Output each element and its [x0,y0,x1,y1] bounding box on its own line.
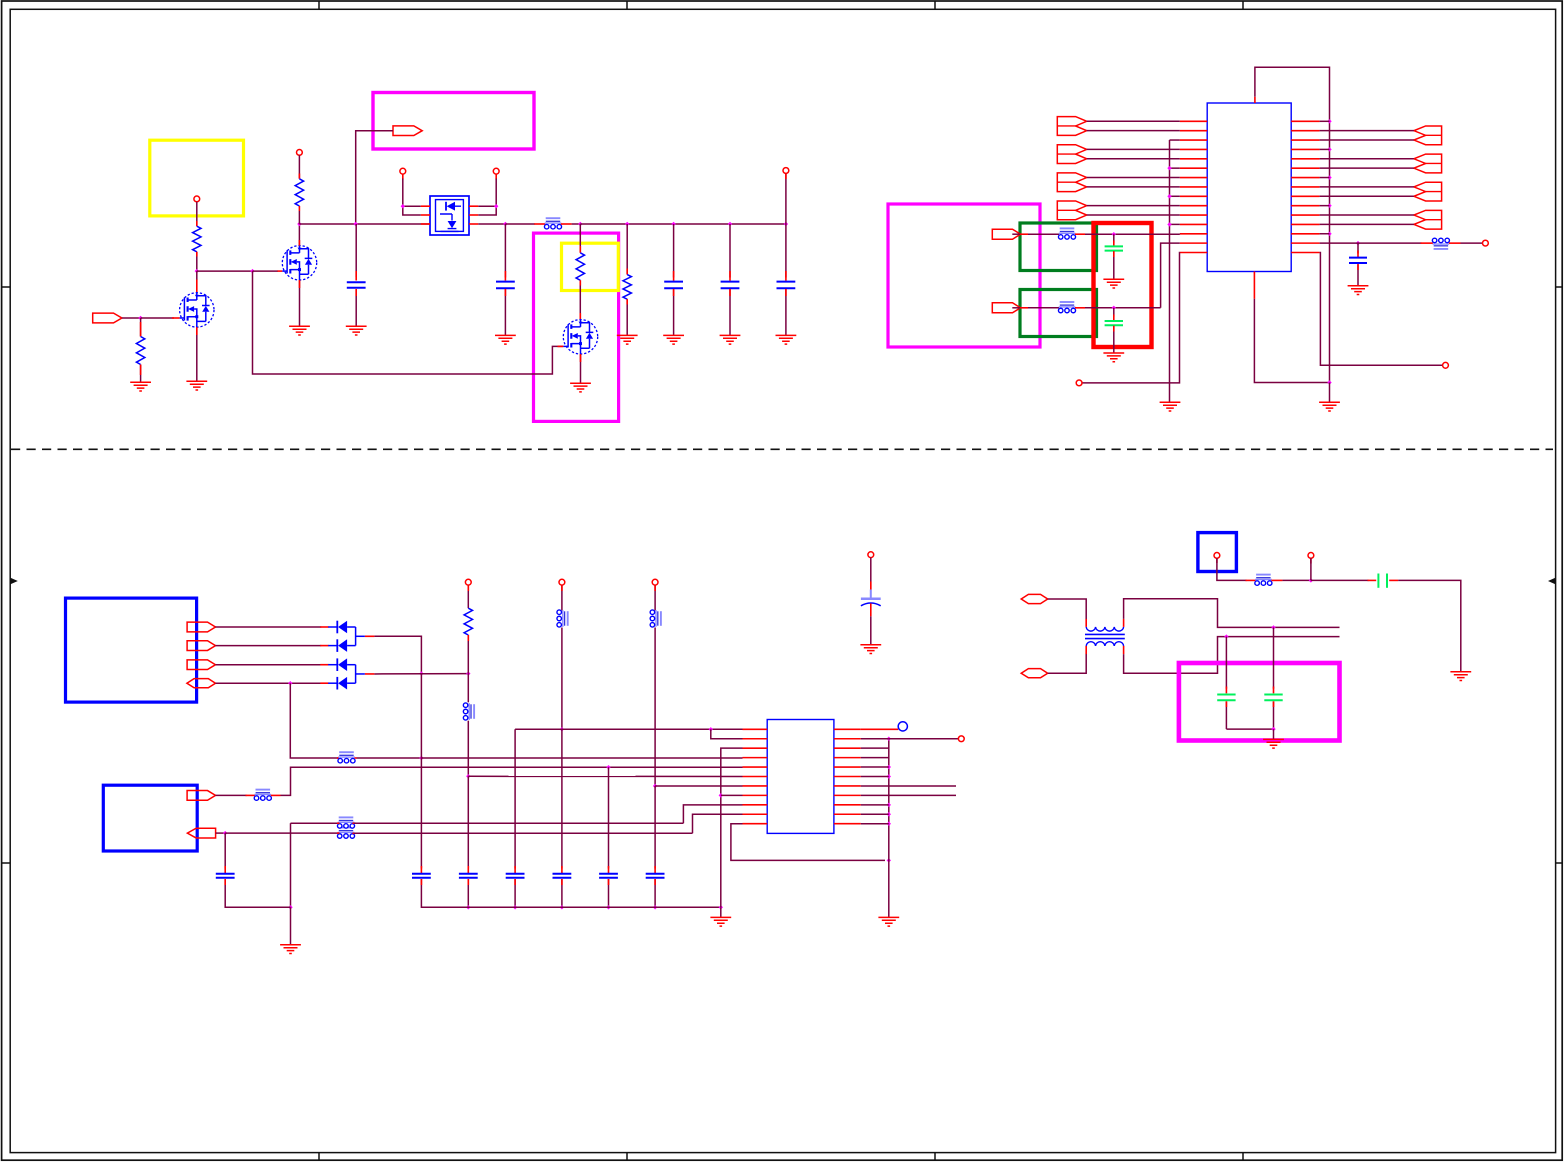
wire N46 down to capacitor C11 [561,729,563,868]
wire PORT-A to FB3 [1012,233,1020,235]
wire U2 bottom pin loop [1254,299,1329,383]
node N28 junction [1327,380,1331,384]
ground G15 (C8) [1103,353,1124,362]
node N3 junction [138,316,142,320]
node N7 junction [494,204,498,208]
wires U2 right power pins 1,4,7,10,13 to rail [1320,120,1330,122]
wire P2 to resistor R3 [298,155,300,178]
wire R5 to ground [626,299,628,335]
capacitor C19 (green, in magenta box M4) [1225,637,1227,689]
port PB2 (bidirectional) [1021,669,1047,678]
ground G3 (Q2 source) [289,326,310,335]
port PORT-B (in magenta box M3) [992,303,1020,313]
port PA2 (blue box B1) [187,641,215,651]
highlight box (green) GB1 [1020,223,1097,271]
wire Q3 source to ground [580,354,582,383]
dual MOSFET U1 package [430,196,469,235]
connector J6 (dual, right rows 5-6) [1414,154,1442,173]
connector J2 (dual, rows 4-5) [1057,145,1086,164]
capacitor C1 [355,224,357,277]
node N61 junction (pin6) [887,774,891,778]
series capacitor C18 (green) [1377,574,1379,588]
ground rail (bottom right half) [421,879,720,907]
capacitor C20 (green, in magenta box M4) [1273,627,1275,688]
ferrite bead FB1 on bus [546,217,561,219]
wire N44 row to U3 pin6 [468,775,742,777]
node N30 junction [1112,232,1116,236]
wire P10 to resistor R6 [467,585,469,608]
IC U3 right pin stubs [834,728,861,730]
wire FB4 to U2 pin14 (via vertical) [1075,307,1085,309]
wire FB3 to U2 pin13 [1075,233,1085,235]
node N22 junction [1167,222,1171,226]
zone tick marks bottom edge [319,1153,1243,1161]
ground G5 (C2) [495,335,516,344]
node N56 junction (rail end) [719,905,723,909]
ground G20 (C18) [1450,672,1471,681]
IC U2 right pin stubs [1291,120,1319,122]
wire P1 to resistor R1 [196,202,198,226]
capacitor C16 (diode net) [420,674,422,869]
right edge arrow marker [1548,578,1556,585]
node N41 junction [466,671,470,675]
node N55 junction (left rail/ground) [288,905,292,909]
wire T1 secondary top to row [1123,619,1125,627]
ground G10 (C5) [776,335,797,344]
wire N41 to ferrite FB6 [467,674,469,703]
ferrite bead FB4 (green box GB2) [1060,301,1075,303]
port PA4 (bidirectional, blue box B1) [187,679,216,688]
wire R1 to node N1 [196,252,198,271]
wire N55 to ground [290,907,292,945]
node N71 junction (cap C20 tap) [1271,625,1275,629]
capacitor C14 [599,873,618,875]
highlight box (blue) B2 [103,785,197,851]
capacitor C11 [553,873,572,875]
node N1 junction [195,269,199,273]
wire P15 to ferrite FB12 [1216,558,1218,563]
node N53 junction (rail) [606,905,610,909]
wire PA4 to diode D4 [216,682,322,684]
wire FB7 to row1 node N46 [561,628,563,730]
ground G6 (Q3 source) [570,383,591,392]
node N20 junction [1167,166,1171,170]
wires J1..J4 to U2 left pins [1087,120,1180,122]
wire C18 to ground [1389,579,1398,581]
ground G1 [130,382,151,391]
node N27 junction [1327,232,1331,236]
node N44 junction (U3 pin6 row) [466,774,470,778]
wires U3 pins5,6 to right vertical [861,766,889,768]
ferrite bead FB5 [339,751,354,753]
wire N1 to Q1 drain [196,271,198,280]
node N70 junction [1309,578,1313,582]
wire IN1 to Q1 gate [122,317,141,319]
capacitor C2 [504,224,506,278]
wire P16 to node N70 [1310,558,1312,563]
wire N56 to ground [720,907,722,917]
bus wire N8 to ferrite FB1 [505,223,534,225]
node N52 junction (cap C14 tap) [606,765,610,769]
diode D3 [328,664,337,666]
ground G12 (right rail) [1319,402,1340,411]
node N2 junction [250,269,254,273]
IC U3 left pin stubs [743,728,768,730]
IC U2 bottom pin stub [1253,272,1255,299]
wire N70 to series capacitor C18 [1311,579,1369,581]
pin P16 [1308,553,1314,559]
wire N50 to U3 pin2 [711,729,743,738]
node N62 junction (pin9) [887,803,891,807]
port IN1 (input port top-left) [93,313,122,323]
node N48 junction (U3 pin7 row) [653,784,657,788]
node N51 junction (rail) [513,905,517,909]
wire P12 to FB8 [654,585,656,610]
highlight box (magenta) M4 [1179,663,1340,741]
diode pair D1/D2 common bracket [355,627,357,646]
ground G14 (C7) [1103,279,1124,288]
wire N3 to Q1 gate stub [141,317,174,319]
node N59 junction (pin2 row) [887,737,891,741]
wire N2 to Q2 gate stub [253,270,279,272]
wire FB9 to U3 pin5 row [271,794,281,796]
wire N3 to resistor R2 [140,318,142,337]
node N12 junction [728,222,732,226]
node N25 junction [1327,175,1331,179]
wire C17 to ground [870,616,872,645]
node N57 junction (U3 pin8 row) [719,793,723,797]
dashed section divider [11,448,1553,450]
node N9 junction [578,222,582,226]
bus wire N9..N13 [580,223,786,225]
port OUT1 (port in magenta box M1) [393,126,422,136]
wire pin2 row to pin P13 [861,738,889,740]
wire U3 row1 from corner to pins 1-2 [515,728,742,730]
wire U3 pin8 long row right [861,794,956,796]
node N11 junction [671,222,675,226]
node N43 junction [419,756,423,760]
wires U2 right pins to J5..J8 [1320,130,1414,132]
wire FB12 to node N70 [1271,579,1282,581]
wire U2 pin15 left to pin P8 [1082,253,1180,383]
wire T1 secondary bottom to row [1123,646,1125,654]
ground G18 (U3 right) [878,917,899,926]
pin P13 (right pin) [958,736,964,742]
pin P5 (bus right pin) [783,168,789,174]
wire N9 to resistor R4 [579,224,581,252]
wire R3 to node N4 [298,206,300,211]
zone tick marks top edge [319,1,1243,9]
node N60 junction (pin5) [887,765,891,769]
node N29 junction [1356,241,1360,245]
pin P10 (top pin over resistor R6) [465,579,471,585]
ferrite bead FB7 (vertical) [567,611,569,626]
capacitor C5 [785,224,787,278]
connector J4 (dual, rows 10-11) [1057,201,1086,220]
wire R2 to ground [140,365,142,383]
pin P4 (dual-FET right pin) [493,168,499,174]
wire N57 to U3 pin8 [721,794,743,796]
IC U2 left pin stubs [1180,120,1207,122]
node N58 junction [887,858,891,862]
capacitor C7 (green, in red box RB1) [1113,234,1115,242]
transformer T1 (common-mode choke) [1086,627,1123,631]
transistor Q1 (NMOS) [180,293,214,327]
pin P11 (top pin over ferrite FB7) [559,579,565,585]
node N46 junction (U3 pin1 row) [560,727,564,731]
power loop wire U2 top pin to right rail [1255,67,1330,382]
wire N44 down to capacitor C10 [467,776,469,868]
pin P2 (pull-up pin) [297,150,303,156]
ferrite bead FB6 (vertical) [473,704,475,719]
node N63 junction (pin10) [887,812,891,816]
highlight box (blue) B1 [66,598,197,702]
wire U2 pin15 right to pin P7 [1320,253,1443,366]
node N45 junction (rail) [466,905,470,909]
node N8 junction [503,222,507,226]
wire Q1 source to ground [196,327,198,381]
node N31 junction [1112,306,1116,310]
capacitor C15 (under PA6) [224,833,226,868]
ground G9 (C4) [720,335,741,344]
connector J7 (dual, right rows 8-9) [1414,182,1442,201]
port PA6 (output, blue box B2) [187,828,215,838]
diode D2 [328,645,337,647]
node N24 junction [1327,147,1331,151]
wire N2 to Q3 gate (long route) [253,271,564,374]
wire D3/D4 output row [374,673,468,675]
ferrite bead FB11 (upper of stacked pair) [339,816,354,818]
bus wire FB1 to node N9 [561,223,572,225]
wire node N1 to Q2 gate [197,270,253,272]
port PORT-A (in magenta box M3) [992,229,1020,239]
highlight box (red) RB1 [1094,223,1152,347]
transistor Q3 (NMOS in magenta box M2) [563,320,597,354]
pin P7 (right lower pin) [1443,362,1449,368]
node N73 junction [1271,727,1275,731]
wire FB10 to U3 pin10 (staircase) [354,832,693,834]
wire PORT-B to FB4 [1012,307,1020,309]
wire P3 to U1 pin1/pin2 [402,174,404,179]
wire R4 to Q3 drain [579,280,581,319]
main bus wire VCC rail [299,223,430,225]
node N5 junction [354,222,358,226]
node N21 junction [1167,194,1171,198]
node N13 junction [784,222,788,226]
connector J8 (dual, right rows 11-12) [1414,210,1442,229]
wire PA5 to ferrite FB9 [216,794,247,796]
ground G2 (Q1 source) [186,381,207,390]
wire P5 to node N13 [785,173,787,224]
diode pair D3/D4 common bracket [355,665,357,684]
IC U2 body [1207,103,1291,272]
wire corner down to capacitor C13 [514,729,516,868]
diode D4 [328,682,337,684]
highlight box (green) GB2 [1020,290,1097,337]
wire FB5 to node N43 [355,757,357,759]
wire FB6 to node N44 [467,721,469,777]
wire C19 bottom to node N73 [1226,728,1273,730]
node N47 junction (rail) [560,905,564,909]
wire FB11 to U3 pin9 (staircase) [354,822,683,824]
node N54 junction [223,831,227,835]
capacitor C13 [506,873,525,875]
pin P15 (in blue box B3) [1214,553,1220,559]
resistor R2 [136,337,144,365]
node N40 junction [419,671,423,675]
wire rail to ground [1329,383,1331,403]
resistor R6 [464,608,472,635]
IC U3 right ground vertical [888,739,890,918]
zone tick marks right edge [1556,287,1563,863]
pin P14 (top pin over polarized cap C17) [868,552,874,558]
wire R6 to node N41 [467,635,469,674]
highlight box (yellow) Y2 [562,243,619,290]
wire OUT1 to bus node N5 [356,131,393,224]
NC flag on U3 pin1 (blue circle) [861,728,898,730]
wire U3 pin3 ground vertical [721,748,743,907]
wire N48 row to U3 pin7 [655,785,742,787]
highlight box (magenta) M2 [534,233,619,421]
connector J1 (dual, rows 1-2) [1057,117,1086,136]
polarized capacitor C17 [870,590,872,598]
connector J3 (dual, rows 7-8) [1057,173,1086,192]
ground G13 (C6) [1348,286,1369,295]
ferrite bead FB9 [256,789,271,791]
connector J5 (dual, right rows 2-3) [1414,126,1442,145]
capacitor C3 [673,224,675,278]
IC U3 body [767,720,834,834]
bus wire U1 to node N8 [478,223,505,225]
wire N54 row through ferrite FB10 lower [225,832,338,834]
node N64 junction (pin11) [887,822,891,826]
wire N48 down to capacitor C12 [654,786,656,869]
ferrite bead FB8 (vertical) [660,611,662,626]
node N10 junction [625,222,629,226]
node N49 junction (rail) [653,905,657,909]
left edge arrow marker [10,578,18,585]
wire U3 pin7 long row right [861,785,956,787]
wire N43 to U3 pin4 [421,757,742,759]
wires U3 pins9,10,11 to right vertical [861,804,889,806]
wire PA1 to diode D1 [216,626,322,628]
ferrite bead FB2 [1434,248,1449,250]
ground G7 (R5) [617,335,638,344]
wire N42-vertical lower to ground rail [290,823,292,907]
wire P4 to U1 right pins [495,174,497,179]
highlight box (yellow) Y1 [150,140,244,216]
pin P12 (top pin over ferrite FB8) [652,579,658,585]
ground G21 (magenta box M4) [1263,739,1284,748]
wire PB1 to transformer T1 primary top [1048,599,1087,620]
wire U2 pin14 row to FB2 and pin P6 [1320,242,1351,244]
wires U3 pins3,4 to right vertical [861,747,889,749]
wire PA6 to node N54 [216,832,226,834]
IC U2 top pin stub [1254,97,1256,103]
node N23 junction [1327,119,1331,123]
ground G17 (mid rail) [710,917,731,926]
ferrite bead FB10 (lower of stacked pair) [339,827,354,829]
node N26 junction [1327,203,1331,207]
ferrite bead FB12 [1256,574,1271,576]
highlight box (magenta) M1 [373,93,534,150]
ferrite bead FB3 (green box GB1) [1060,227,1075,229]
wire Q2 drain to bus node N4 [298,224,300,246]
node N42 junction (on PA4 row) [288,681,292,685]
wire U3 pin11 loop to right rail [731,824,885,861]
node N50 junction [709,727,713,731]
diode D1 [328,626,337,628]
wire N73 to ground [1273,729,1275,739]
wire P14 to C17 [870,558,872,590]
ground G8 (C3) [663,335,684,344]
resistor R3 [295,179,303,206]
port PA1 (blue box B1) [187,622,215,632]
capacitor C6 (decoupling at N29) [1357,243,1359,253]
pin P8 (left lower pin) [1076,380,1082,386]
ground G11 (U2 left) [1160,402,1181,411]
wire N10 to resistor R5 [626,224,628,274]
transistor Q2 (NMOS) [282,246,316,280]
ground G4 (C1) [346,326,367,335]
highlight box (magenta) M3 [888,204,1040,347]
pin P6 (right pin) [1483,240,1489,246]
node N6 junction [401,204,405,208]
capacitor C8 (green, in red box RB1) [1113,308,1115,317]
wire PA2 to diode D2 [216,645,322,647]
capacitor C12 [646,873,665,875]
wire N42 down to bead row FB5 [290,683,338,758]
wire FB8 to row7 node N48 [654,628,656,787]
node N4 junction (bus left end) [297,222,301,226]
node N72 junction (cap C19 tap) [1224,634,1228,638]
resistor R1 [193,226,201,252]
capacitor C10 [459,873,478,875]
wire Q2 source to ground [299,280,301,326]
ground G19 (C17) [860,645,881,654]
wire PA3 to diode D3 [216,664,322,666]
ground net vertical (U2 pins 3,6,9,12) [1170,139,1180,141]
pin P3 (dual-FET left pin) [400,168,406,174]
ground G16 (left rail) [280,945,301,954]
wire bead row upper start corner [291,822,339,824]
zone tick marks left edge [2,287,11,863]
wire N52 down to capacitor C14 [608,767,610,868]
port PA5 (blue box B2) [187,791,215,801]
U1 pin stubs [421,205,430,207]
port PB1 (bidirectional) [1021,594,1047,603]
resistor R5 [623,275,631,300]
capacitor C4 [729,224,731,278]
highlight box (blue) B3 [1198,533,1237,572]
wire PB2 to transformer T1 primary bottom [1048,654,1087,674]
wire P11 to FB7 [561,585,563,610]
pin P1 (power pin in yellow box Y1) [194,196,200,202]
wire D1/D2 output to node N40 [374,636,421,673]
resistor R4 (in yellow box Y2) [576,253,584,280]
port PA3 (blue box B1) [187,660,215,670]
